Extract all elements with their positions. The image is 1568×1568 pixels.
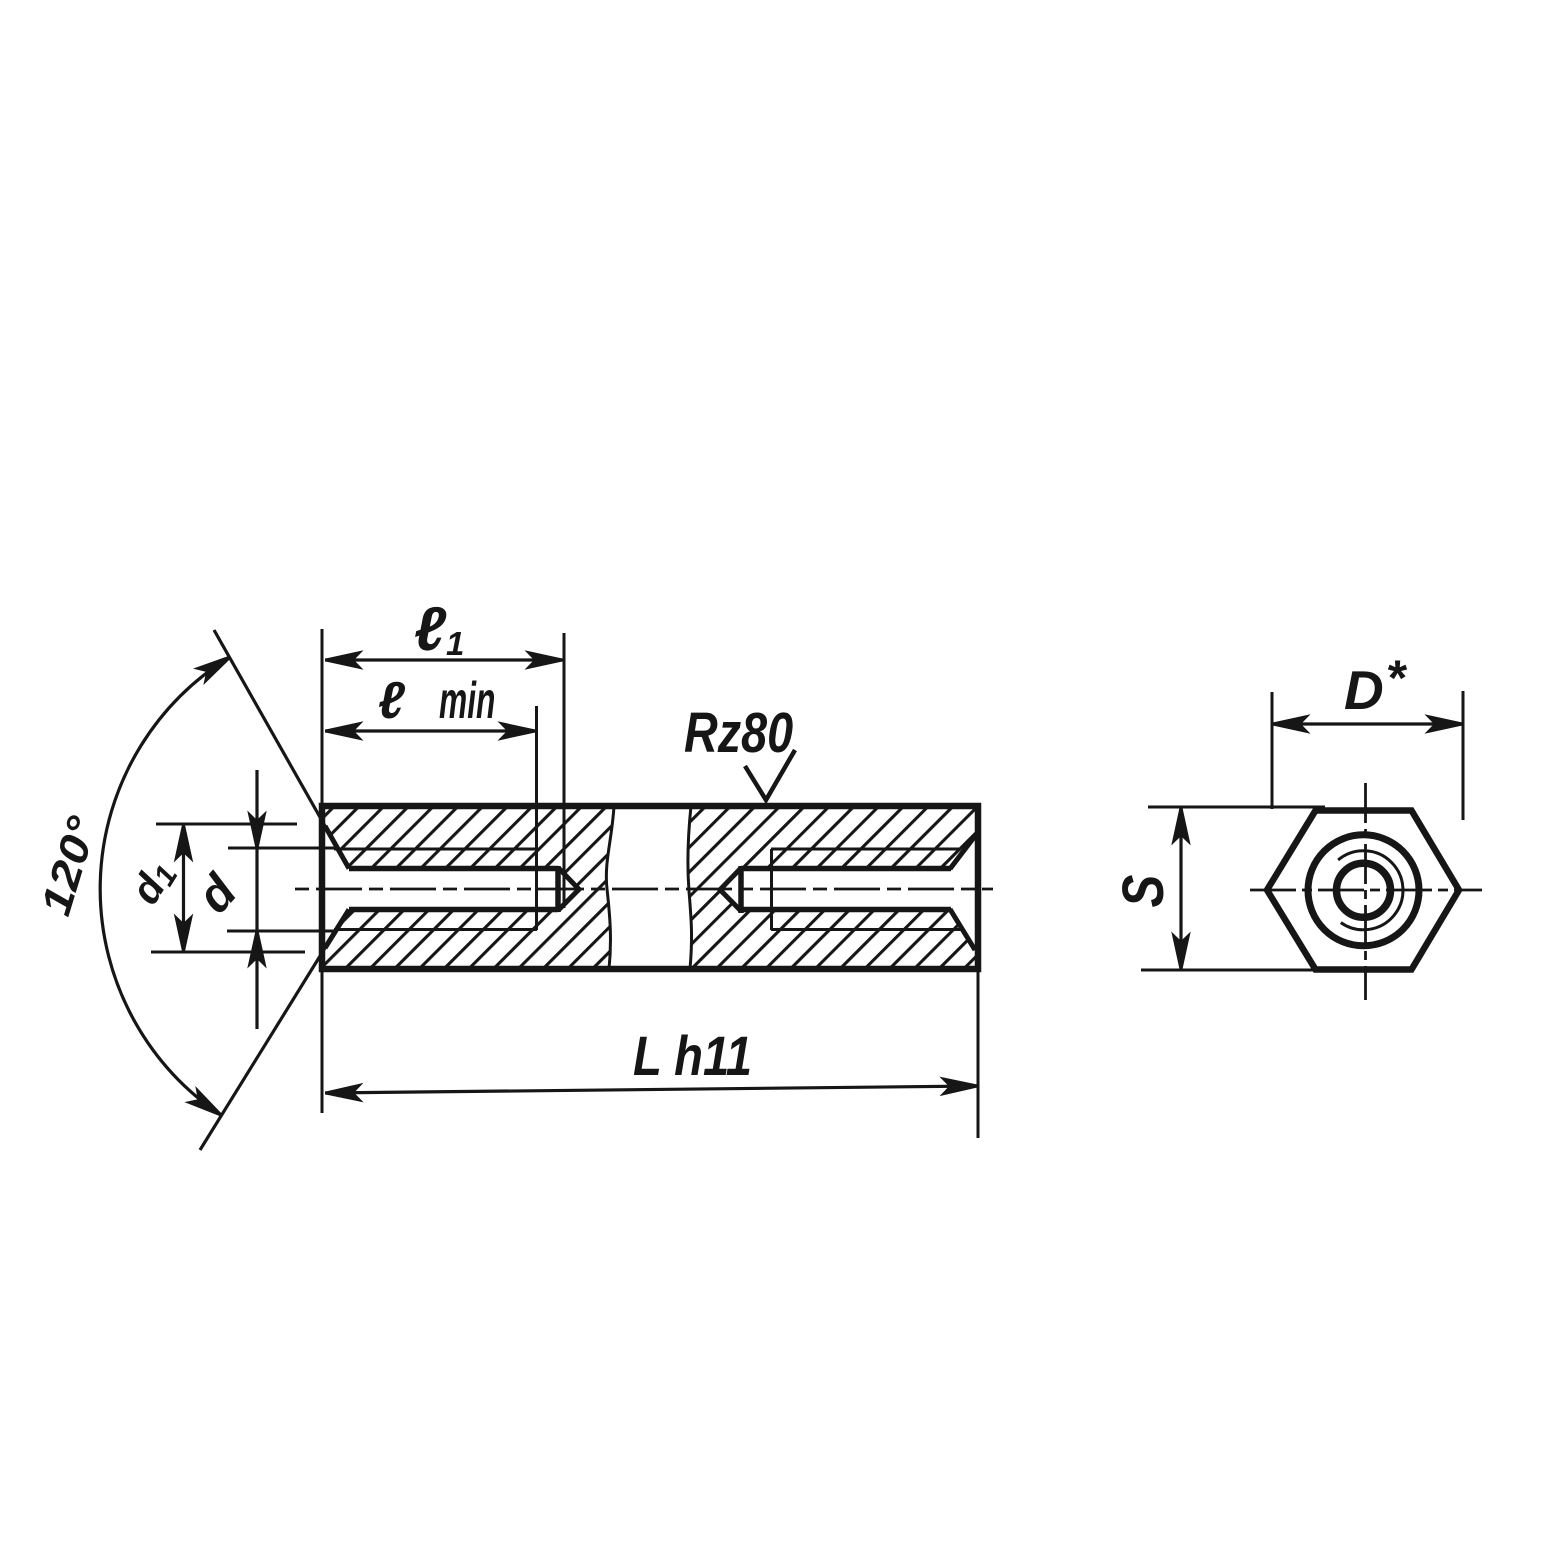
- body outline: [322, 806, 978, 969]
- svg-text:d: d: [187, 864, 248, 923]
- hole circle end view: [1337, 863, 1391, 917]
- dimension D* line: [1272, 722, 1463, 725]
- 120 deg construction line upper: [214, 630, 325, 826]
- dimension L min: [325, 729, 536, 732]
- svg-text:D*: D*: [1344, 650, 1408, 721]
- drill point cone right: [720, 868, 741, 911]
- drill point cone left: [558, 868, 579, 911]
- thread major thin lines left hole: [334, 849, 537, 930]
- break line right: [688, 806, 692, 969]
- hatch left section: [322, 806, 614, 969]
- dimension d1 extension lines: [151, 824, 305, 952]
- 120 deg construction line lower: [200, 948, 325, 1150]
- svg-text:120°: 120°: [32, 810, 107, 921]
- drill hole left thick lines: [349, 866, 558, 912]
- l1 extension line right: [563, 633, 566, 908]
- thread major arc end view: [1338, 851, 1403, 930]
- drill hole right thick lines: [741, 866, 951, 913]
- svg-text:ℓ: ℓ: [378, 672, 406, 730]
- dimension S line: [1179, 808, 1182, 969]
- countersink right face flanks: [950, 836, 975, 950]
- dimension S extension lines: [1141, 807, 1325, 970]
- svg-text:ℓ1: ℓ1: [414, 595, 464, 664]
- svg-text:Rz80: Rz80: [684, 702, 793, 765]
- horizontal centerline end view: [1250, 889, 1482, 892]
- dimension L h11: [325, 1086, 978, 1093]
- left face extension line down: [321, 972, 324, 1113]
- svg-text:S: S: [1111, 874, 1176, 907]
- dimension D* extension lines: [1272, 691, 1463, 820]
- countersink circle end view: [1308, 835, 1419, 946]
- vertical centerline end view: [1364, 783, 1367, 1000]
- right face extension line down: [977, 972, 980, 1138]
- thread end line / L min extension: [535, 706, 538, 930]
- dimension d line: [255, 770, 258, 1029]
- svg-text:min: min: [439, 672, 495, 730]
- svg-text:L h11: L h11: [633, 1024, 752, 1087]
- surface finish tick Rz80: [745, 750, 795, 800]
- dimension d1 line: [182, 826, 185, 950]
- centerline axis side view: [295, 888, 993, 891]
- dimension l1: [325, 658, 563, 661]
- dimension d extension lines: [227, 848, 334, 931]
- hex end view outline: [1267, 811, 1459, 970]
- 120 deg arc: [100, 657, 230, 1115]
- hatch right section: [688, 806, 978, 969]
- thread major thin lines right hole: [771, 849, 962, 930]
- break line left: [606, 806, 614, 969]
- left face extension line up: [321, 629, 324, 803]
